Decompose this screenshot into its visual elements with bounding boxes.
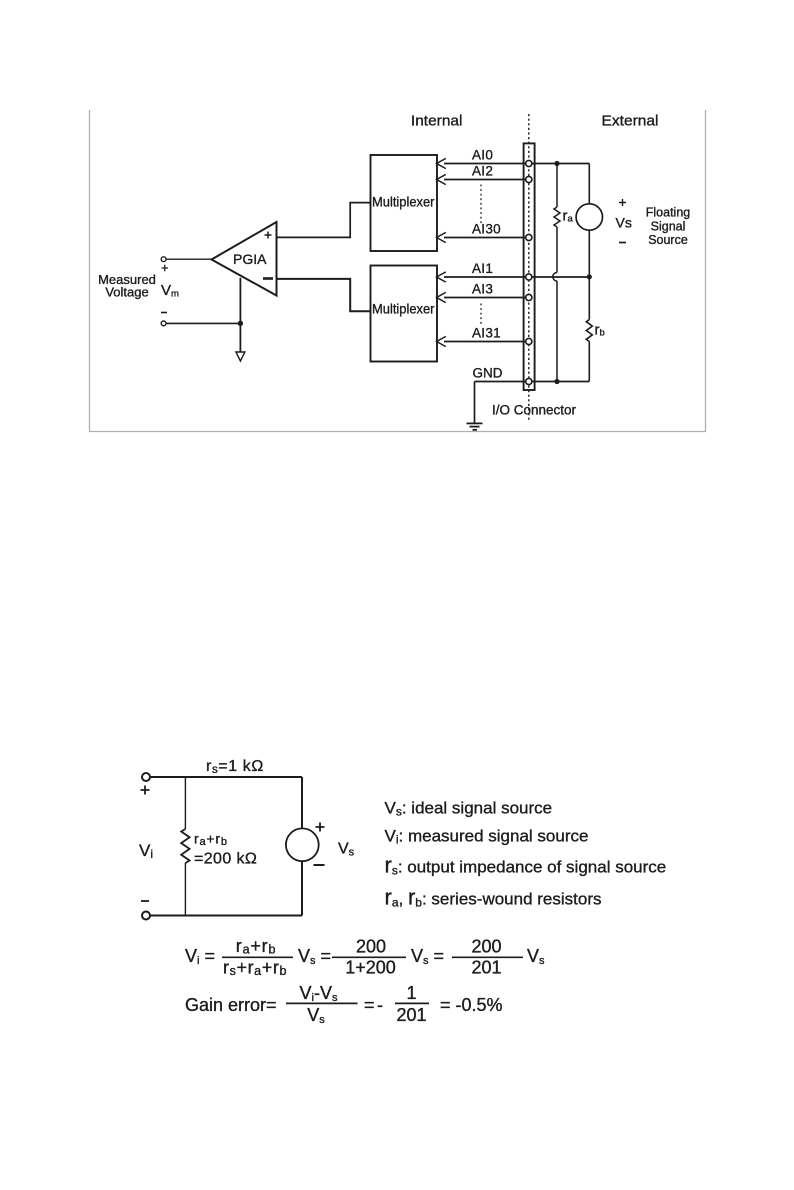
svg-text:Vs =: Vs = xyxy=(411,946,444,967)
svg-text:Vi: Vi xyxy=(139,841,153,861)
svg-text:Internal: Internal xyxy=(411,113,463,130)
svg-text:rb: rb xyxy=(595,322,605,339)
svg-text:Gain error=: Gain error= xyxy=(185,995,277,1015)
svg-text:Vs =: Vs = xyxy=(298,946,331,967)
svg-text:Vi-Vs: Vi-Vs xyxy=(300,983,338,1004)
svg-text:Vm: Vm xyxy=(161,282,179,300)
svg-text:Vs: Vs xyxy=(338,841,355,859)
svg-text:Multiplexer: Multiplexer xyxy=(372,194,435,210)
svg-text:ra+rb: ra+rb xyxy=(194,831,228,849)
svg-text:= -0.5%: = -0.5% xyxy=(440,995,503,1015)
svg-text:AI0: AI0 xyxy=(472,148,493,163)
svg-text:200: 200 xyxy=(356,937,386,957)
svg-text:Floating: Floating xyxy=(646,206,691,220)
svg-text:rs: output impedance of signal: rs: output impedance of signal source xyxy=(385,853,667,878)
svg-text:PGIA: PGIA xyxy=(233,251,267,267)
svg-text:201: 201 xyxy=(396,1005,426,1025)
svg-text:Vi =: Vi = xyxy=(185,946,215,967)
svg-text:AI2: AI2 xyxy=(472,164,493,179)
svg-text:rs+ra+rb: rs+ra+rb xyxy=(223,958,287,979)
svg-text:1: 1 xyxy=(406,983,416,1003)
svg-text:GND: GND xyxy=(473,366,503,381)
svg-text:AI1: AI1 xyxy=(472,261,493,276)
svg-text:-: - xyxy=(377,995,383,1015)
svg-text:Voltage: Voltage xyxy=(105,285,148,300)
svg-text:AI31: AI31 xyxy=(472,326,501,341)
svg-text:Vs: ideal signal source: Vs: ideal signal source xyxy=(385,799,553,819)
svg-text:201: 201 xyxy=(471,958,501,978)
svg-text:=200 kΩ: =200 kΩ xyxy=(194,851,257,868)
svg-text:AI30: AI30 xyxy=(472,222,501,237)
svg-text:External: External xyxy=(602,113,659,130)
svg-text:Vs: Vs xyxy=(307,1005,325,1026)
svg-text:200: 200 xyxy=(471,937,501,957)
svg-text:Vs: Vs xyxy=(616,215,632,231)
svg-text:Signal: Signal xyxy=(651,220,686,234)
svg-text:AI3: AI3 xyxy=(472,282,493,297)
svg-text:rs=1 kΩ: rs=1 kΩ xyxy=(206,758,264,776)
svg-text:Multiplexer: Multiplexer xyxy=(372,301,435,317)
svg-text:Source: Source xyxy=(648,233,688,247)
svg-text:Vi: measured signal source: Vi: measured signal source xyxy=(385,827,589,847)
svg-text:ra: ra xyxy=(563,208,574,225)
svg-text:Vs: Vs xyxy=(527,946,545,967)
svg-text:ra, rb: series-wound resistors: ra, rb: series-wound resistors xyxy=(385,885,602,910)
svg-text:1+200: 1+200 xyxy=(345,958,396,978)
svg-text:I/O Connector: I/O Connector xyxy=(492,403,577,418)
svg-text:=: = xyxy=(364,995,375,1015)
svg-text:ra+rb: ra+rb xyxy=(236,936,276,957)
